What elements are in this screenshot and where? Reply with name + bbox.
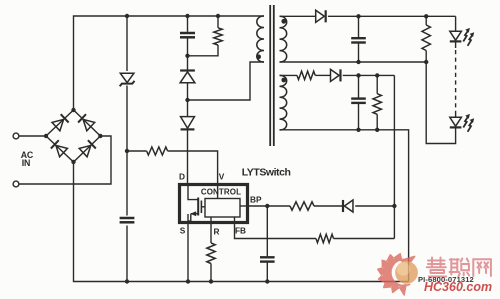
wire LED string (dashed, more LEDs) [455, 41, 457, 113]
wire VR1 column [126, 16, 128, 282]
node VR1 anode / sense wire [125, 149, 129, 153]
node R6 / LED return [424, 60, 428, 64]
diode BR1c (bottom-left arm) [51, 140, 68, 157]
wire R4 to D3 [314, 205, 343, 207]
svg-text:V: V [219, 172, 225, 182]
diode D1 (clamp, cathode up) [180, 56, 195, 100]
svg-text:IN: IN [22, 158, 30, 168]
label V pin [219, 172, 225, 182]
wire R3 to bottom rail [210, 264, 212, 282]
node bridge left [44, 134, 48, 138]
transformer T1 secondary 1 winding [280, 16, 287, 62]
label PI-6800-071312 [418, 275, 474, 284]
AC input terminal (line) [13, 133, 19, 139]
resistor R7 [297, 71, 315, 79]
diode BR1a (left-top arm) [52, 114, 69, 131]
diode BR1b (right-top arm) [78, 114, 95, 131]
label FB pin [235, 226, 246, 236]
diode D4 (output rectifier) [316, 10, 326, 22]
capacitor C1 (bulk filter) [118, 216, 136, 226]
capacitor C4 (output) [351, 16, 366, 62]
node top rail / C2 [185, 14, 189, 18]
diode BR1d (bottom-right arm) [79, 140, 96, 157]
wire secondary 2 to R7 [280, 74, 298, 76]
node R8 to secondary 2 return [375, 128, 379, 132]
op-amp U1 LYTSwitch outline [180, 185, 248, 223]
wire bridge diamond [46, 110, 100, 162]
wire secondary 1 return rail [280, 61, 427, 63]
node FB rail / C5 [356, 73, 360, 77]
wire LED string return [426, 62, 455, 144]
transistor Q1 (internal MOSFET) [188, 186, 205, 222]
node BP / C3 [265, 204, 269, 208]
wire FB rail down to BP diode node [393, 75, 395, 238]
resistor R8 [373, 75, 381, 129]
wire primary bottom lead [188, 62, 265, 100]
label LYTSwitch [242, 167, 291, 179]
resistor R4 (BP) [290, 202, 314, 210]
wire secondary 2 return rail [280, 130, 409, 282]
node R3 ground [209, 279, 213, 283]
label BP pin [250, 195, 262, 205]
label CONTROL [201, 188, 241, 197]
wire bridge + up to top rail [74, 16, 265, 110]
transformer T1 core [270, 5, 274, 146]
node bridge bottom (-) [71, 160, 75, 164]
resistor R2 (line sense) [147, 147, 168, 155]
wire D3 to FB rail [355, 205, 394, 207]
AC input terminal (neutral) [13, 181, 19, 187]
node top rail / VR1 [125, 14, 129, 18]
diode D5 (feedback rectifier) [331, 69, 341, 81]
wire AC line to bridge left node [19, 135, 46, 137]
U1 controller block [205, 199, 240, 218]
node C4 to return rail [356, 60, 360, 64]
LED D7 [450, 113, 474, 132]
node FB rail / R8 [375, 73, 379, 77]
capacitor C2 (clamp) [180, 16, 195, 56]
LED D6 [450, 28, 474, 46]
resistor R6 (preload) [422, 16, 430, 62]
zener VR1 [120, 71, 135, 86]
label AC IN [21, 150, 34, 168]
wire U1 R pin internal [210, 217, 212, 222]
resistor R1 (clamp) [188, 16, 223, 56]
wire U1 BP pin internal [240, 205, 248, 207]
label R pin [214, 227, 220, 237]
capacitor C5 [351, 75, 366, 129]
node clamp/primary junction [185, 98, 189, 102]
watermark HC360 logo [378, 254, 492, 295]
wire secondary 1 to D4 [280, 15, 316, 17]
wire R2 to V pin [168, 151, 218, 183]
node output rail / C4 [356, 14, 360, 18]
wire U1 FB pin internal [234, 217, 236, 222]
wire D5 to C5 node [343, 74, 395, 76]
node C3 ground [265, 279, 269, 283]
resistor R5 (FB) [316, 234, 334, 242]
node T1 secondary 1 polarity dot [281, 19, 286, 24]
node C1 to bottom rail [125, 279, 129, 283]
wire bridge - down to bottom rail [74, 162, 409, 282]
transformer T1 primary winding [257, 16, 264, 62]
node T1 primary polarity dot [256, 54, 261, 59]
node S pin ground [186, 279, 190, 283]
svg-text:PI-6800-071312: PI-6800-071312 [418, 275, 474, 284]
wire R7 to D5 [315, 74, 330, 76]
wire R5 to FB rail [334, 238, 395, 240]
node output rail / R6 [424, 14, 428, 18]
capacitor C3 (BP bypass) [260, 206, 275, 282]
diode D3 (cathode left) [343, 200, 353, 212]
transformer T1 secondary 2 winding [280, 75, 287, 130]
node bridge top (+) [71, 108, 75, 112]
svg-text:BP: BP [250, 195, 262, 205]
wire BP pin to R4 [248, 205, 291, 207]
node C5 to secondary 2 return [356, 128, 360, 132]
wire U1 V pin internal [217, 186, 219, 199]
resistor R3 (R pin set) [207, 243, 215, 264]
wire output rail to LED1 [455, 16, 457, 31]
wire D4 to output rail [328, 15, 456, 17]
wire FB pin down and right [235, 222, 317, 239]
wire sense to R2 [127, 150, 147, 152]
node clamp C2/R1 junction [185, 54, 189, 58]
wire AC neutral to bridge right node [19, 136, 111, 184]
node T1 secondary 2 polarity dot [281, 78, 286, 83]
svg-text:CONTROL: CONTROL [201, 188, 241, 197]
node top rail / R1 [216, 14, 220, 18]
label D pin [179, 172, 185, 182]
node FB rail / BP branch [392, 204, 396, 208]
node bridge right [98, 134, 102, 138]
wire S pin to bottom rail [187, 222, 189, 282]
diode D2 (blocking, cathode down) [181, 100, 195, 183]
svg-text:D: D [179, 172, 185, 182]
svg-text:FB: FB [235, 226, 246, 236]
svg-text:R: R [214, 227, 220, 237]
wire R pin lead [210, 222, 212, 243]
svg-text:LYTSwitch: LYTSwitch [242, 167, 291, 179]
label S pin [180, 226, 186, 236]
svg-text:S: S [180, 226, 186, 236]
